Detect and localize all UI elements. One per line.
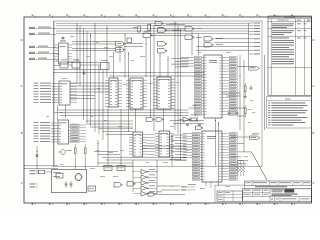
svg-text:DESCRIPTION: DESCRIPTION [278,20,290,22]
capacitor C2 [83,70,85,73]
gate G12 [146,118,153,122]
resistor R3 [244,86,246,92]
bus arrow BUS2 [250,136,261,140]
AC input connector labels [30,170,39,187]
CPU U11 with pin labels [183,131,237,182]
bus arrow BUS1 [249,67,260,71]
revision history table [268,16,312,95]
gate G10 [204,37,212,42]
gate G4 [158,28,166,33]
power supply box [52,170,87,193]
connector J2 label [252,133,259,136]
gate G15 [127,182,134,187]
IC U8 [129,132,147,157]
border zone letters [21,38,315,185]
wire bundle U8-U9 [147,135,156,155]
regulator VR1 [56,174,63,179]
capacitor C3 [250,87,253,89]
gate G5 [158,42,166,47]
svg-text:B: B [313,131,315,135]
vertical wires [37,21,265,194]
gate G9 [185,35,193,40]
horizontal wires [24,25,252,191]
gate G17 [196,126,202,130]
top bus wires [56,23,249,33]
ground GND1 [244,95,246,97]
wire junction dots [37,23,245,173]
svg-text:D: D [21,38,23,42]
gate G3 [143,33,151,38]
gate G8 [185,27,193,32]
capacitor C4 [186,124,189,126]
gate G13 [156,118,162,122]
gate G14 [114,183,121,188]
svg-text:C: C [21,84,23,88]
inverter row G18-G22 [133,169,157,196]
IC U1 [55,41,73,65]
gate G6 [158,49,166,54]
capacitor C6 [65,181,67,184]
border zone ticks [32,15,295,205]
svg-text:D: D [312,38,314,42]
gate G11 [204,43,212,48]
gate G23 [148,193,154,197]
IC U3a small box [127,38,132,43]
CPU U10 with pin labels [181,55,237,118]
gate reference labels [144,23,223,45]
resistor R2 [148,25,151,31]
right edge net labels [249,23,260,55]
IC U12 / U13 small [60,60,101,69]
resistor R6 [244,108,246,114]
resistor R5 [84,148,86,154]
gate G1 [116,42,124,47]
board outline box [54,21,263,167]
gate G7 [155,22,162,26]
IC U7 with pin label boxes [34,120,87,144]
resistor R4 [74,148,76,154]
svg-text:D: D [271,198,273,201]
capacitor C9 [236,110,238,113]
IC U2 with signal labels [34,81,78,105]
left edge connector labels P1 [29,27,56,60]
connector labels J3 [181,182,211,190]
IC U4 [105,78,122,108]
gate output wires to connector [196,39,249,50]
gate G2 [116,48,124,53]
IC U14 small [88,186,96,191]
notes list [267,97,312,129]
sheet border frame [24,17,312,203]
svg-text:REVISIONS: REVISIONS [284,17,295,19]
title block [215,181,312,203]
svg-text:A: A [21,181,23,185]
resistor R1 [138,26,141,32]
zener diode CR1 [36,150,38,162]
IC U9 [155,131,174,157]
transistor Q1 [61,150,66,155]
IC U6 [153,77,175,109]
wire diagonal [252,152,268,180]
svg-text:B: B [21,131,23,135]
crystal Y1 [191,118,197,121]
bridge rectifier CR2 [75,173,82,180]
capacitor C8 [228,110,230,113]
IC U3 small box [101,63,110,70]
IC U5 [126,78,147,109]
svg-text:Notes: Notes [285,98,292,101]
capacitor C5 [198,124,201,126]
wire [229,107,245,109]
IC U16 small box [117,166,125,171]
resistor network RP1 [233,157,245,177]
IC U15 small box [104,166,112,171]
svg-text:C: C [312,84,314,88]
inverter G16 [183,117,189,122]
capacitor C1 [62,37,64,40]
capacitor C7 [70,181,72,184]
svg-text:A: A [313,181,315,185]
fuse F1 [39,170,45,174]
component value labels [46,36,255,189]
